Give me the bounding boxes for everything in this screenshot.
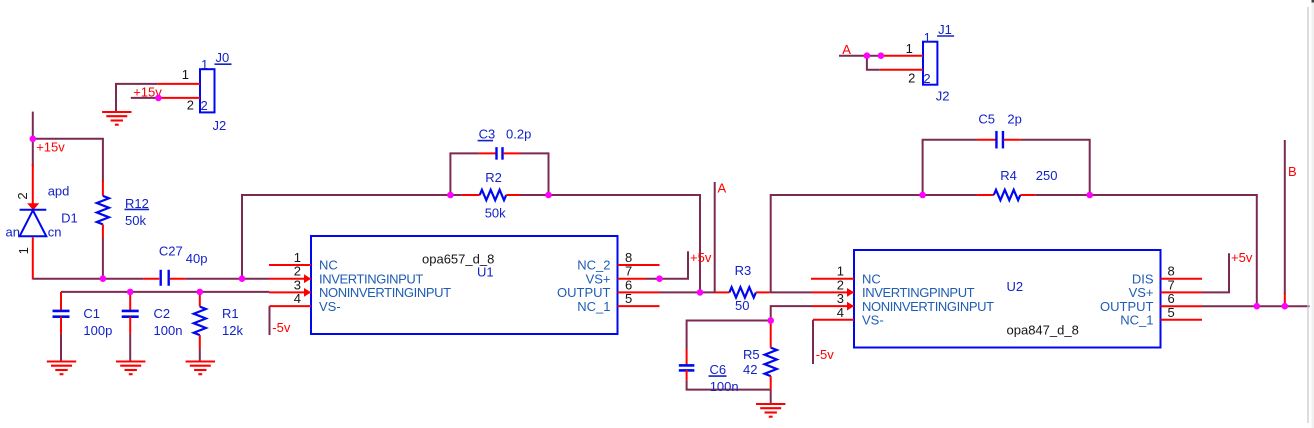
op-amp U2 pin 8 stub [1161,278,1203,280]
resistor R12 body [97,196,109,225]
svg-text:1: 1 [201,57,208,72]
op-amp U1 pin 5 stub [618,305,660,307]
connector J1 pin 1 stub [881,55,923,57]
op-amp U2 pin 4 stub [813,319,854,321]
svg-text:NC_1: NC_1 [1120,313,1153,328]
wire C6 bottom [687,380,771,389]
connector J0 pin 1 stub [158,83,200,85]
junction at J1 pin1 stub [878,52,885,59]
connector J0 refdes underline [215,63,232,65]
svg-text:1: 1 [906,41,913,56]
svg-text:J1: J1 [938,22,952,37]
svg-text:50k: 50k [125,213,146,228]
svg-text:C1: C1 [83,306,100,321]
svg-text:0.2p: 0.2p [506,127,531,142]
svg-text:an: an [6,224,20,239]
wire R2 left [450,194,461,196]
capacitor C2 bottom stub [129,317,131,334]
op-amp U1 body [311,236,618,334]
svg-text:2: 2 [187,98,194,113]
svg-text:1: 1 [16,247,31,254]
wire feedback to U1 output [549,195,701,292]
junction U1 pin7 +5v [656,275,663,282]
op-amp U2 pin 3 arrow [847,302,854,311]
svg-text:A: A [842,42,851,57]
capacitor C27 body [161,270,169,286]
wire U2 feedback left leg [771,195,923,292]
capacitor C6 bottom stub [686,370,688,380]
capacitor C6 refdes underline [709,375,727,377]
wire +5v to U2 pin7 [1202,253,1229,292]
wire R3 to U2 pin2 [770,291,812,293]
wire C2 to ground [129,334,131,362]
svg-text:opa847_d_8: opa847_d_8 [1007,322,1079,337]
wire R2 right [520,194,549,196]
wire noninverting line [61,291,269,293]
resistor R12 refdes underline [125,208,150,210]
wire R4 right [1036,194,1090,196]
svg-text:100n: 100n [710,379,739,394]
op-amp U1 pin 3 stub [269,291,311,293]
svg-text:50k: 50k [485,206,506,221]
wire +15v vertical stub [32,112,34,167]
wire C5 loop right leg [1021,140,1090,195]
wire U2 output [1202,305,1310,307]
capacitor C1 top stub [60,292,62,311]
svg-text:1: 1 [924,30,931,45]
wire U2 pin3 branch [771,306,812,320]
capacitor C3 left stub [479,152,496,154]
svg-text:2p: 2p [1007,112,1021,127]
svg-text:R3: R3 [735,263,752,278]
svg-text:U2: U2 [1007,279,1024,294]
svg-text:D1: D1 [61,211,78,226]
ground at C2 [116,362,145,375]
op-amp U2 pin 1 stub [811,278,854,280]
svg-text:R4: R4 [1000,168,1017,183]
svg-text:A: A [718,181,727,196]
svg-text:-5v: -5v [816,347,835,362]
wire +5v to U1 pin7 [646,251,688,278]
capacitor C3 refdes underline [478,140,493,142]
junction C3 left leg [447,192,454,199]
capacitor C3 right stub [503,152,520,154]
svg-text:+5v: +5v [1231,250,1253,265]
resistor R4 body [994,190,1021,200]
wire node A vertical [714,182,716,292]
svg-text:42: 42 [743,362,757,377]
window border grey line [1307,7,1309,423]
junction C2 top [127,289,134,296]
photodiode D1 pin 1 stub (bottom) [32,237,34,279]
op-amp U1 pin 2 stub [269,278,311,280]
photodiode D1 cathode bar [20,209,47,211]
resistor R5 top stub [770,321,772,348]
wire J1 pin2 branch [867,56,880,70]
op-amp U2 body [854,250,1161,348]
junction on J0 pin2 wire [155,95,162,102]
photodiode D1 triangle [20,210,47,236]
wire R1 to ground [199,349,201,362]
capacitor C27 right stub [170,278,186,280]
junction C3 right leg [545,192,552,199]
svg-text:+5v: +5v [690,250,712,265]
wire C3 loop left leg [450,153,478,195]
svg-text:apd: apd [48,183,70,198]
junction +15v node [30,136,37,143]
junction A branch [864,52,871,59]
op-amp U1 pin 8 stub [618,264,660,266]
svg-text:1: 1 [182,67,189,82]
wire +15v stub at J0 pin2 [131,97,159,99]
svg-text:R2: R2 [485,170,502,185]
op-amp U1 pin 3 arrow [304,288,311,297]
capacitor C3 body [497,147,503,160]
svg-text:U1: U1 [477,265,494,280]
op-amp U2 pin 2 arrow [847,288,854,297]
wire node to C6 top [687,321,771,350]
ground at R1 [186,362,215,375]
ground at J0 [102,112,131,125]
svg-text:NC_1: NC_1 [577,299,610,314]
capacitor C5 left stub [977,139,996,141]
resistor R2 right stub [506,194,520,196]
wire feedback to U2 output [1090,195,1257,306]
op-amp U1 pin 4 stub [270,305,312,307]
capacitor C27 left stub [143,278,159,280]
wire J0 pin1 to ground [116,84,158,112]
resistor R1 body [194,307,206,336]
op-amp U2 pin 5 stub [1161,319,1203,321]
svg-text:J2: J2 [936,89,950,104]
connector J1 pin 2 stub [880,69,923,71]
svg-text:2: 2 [15,192,30,199]
wire -5v at U1 pin4 [269,306,271,335]
wire feedback left leg to bus [242,195,450,279]
svg-text:C2: C2 [154,306,171,321]
wire node B vertical [1284,140,1286,294]
wire R4 left [923,194,978,196]
junction R1 top [197,289,204,296]
resistor R12 bottom stub [102,224,104,237]
wire C5 loop left leg [923,140,978,195]
svg-text:J0: J0 [216,50,230,65]
svg-text:+15v: +15v [36,139,65,154]
svg-text:50: 50 [735,298,749,313]
svg-text:VS-: VS- [862,313,884,328]
resistor R3 left stub [715,291,730,293]
wire node A to J1 [839,55,881,57]
connector J1 body [923,42,937,85]
capacitor C1 bottom stub [60,317,62,334]
wire node B red stub [1284,293,1286,306]
op-amp U2 pin 7 stub [1161,291,1203,293]
svg-text:R1: R1 [222,306,239,321]
wire U1 output [660,291,716,293]
resistor R1 bottom stub [199,335,201,348]
capacitor C6 top stub [686,349,688,365]
svg-text:250: 250 [1036,168,1058,183]
wire R12 bottom to bus [102,238,104,279]
ground at R5 [756,404,785,417]
junction U2 feedback-output [1254,303,1261,310]
op-amp U1 pin 1 stub [269,264,311,266]
svg-text:C5: C5 [978,112,995,127]
resistor R4 right stub [1020,194,1036,196]
resistor R5 bottom stub [770,376,772,390]
resistor R2 body [480,190,507,200]
svg-text:VS-: VS- [319,299,341,314]
resistor R2 left stub [462,194,480,196]
resistor R5 body [765,348,777,377]
ground at C1 [47,362,76,375]
svg-text:C27: C27 [159,244,183,259]
junction C5 right leg [1086,192,1093,199]
svg-text:12k: 12k [222,323,243,338]
capacitor C1 body [53,311,70,317]
op-amp U2 pin 6 stub [1161,305,1203,307]
resistor R4 left stub [977,194,994,196]
capacitor C5 body [996,131,1003,149]
svg-text:C3: C3 [479,127,496,142]
svg-text:-5v: -5v [272,320,291,335]
svg-text:B: B [1288,164,1297,179]
junction feedback tap on bus [239,275,246,282]
resistor R3 body [729,287,756,297]
capacitor C2 body [122,311,139,317]
photodiode D1 arrow [27,203,39,210]
connector J0 body [200,69,215,112]
wire diode to C27 [33,278,143,280]
op-amp U1 pin 6 stub [618,291,660,293]
svg-text:C6: C6 [710,362,727,377]
resistor R3 right stub [756,291,770,293]
wire C3 loop right leg [520,153,549,195]
svg-text:40p: 40p [186,251,208,266]
wire +15v to R12 top [33,139,103,182]
window corner dark tick [1312,0,1314,3]
wire C27 to U1 pin2 [186,278,269,280]
capacitor C6 body [679,365,695,370]
resistor R1 top stub [199,292,201,307]
capacitor C5 right stub [1004,139,1021,141]
junction R5 top node [767,317,774,324]
svg-text:2: 2 [201,98,208,113]
capacitor C2 top stub [129,292,131,311]
svg-text:2: 2 [923,71,930,86]
junction R12-bus [100,275,107,282]
connector J1 refdes underline [937,35,954,37]
op-amp U2 pin 3 stub [812,305,854,307]
op-amp U1 pin 7 stub [618,278,647,280]
svg-text:cn: cn [48,224,62,239]
wire R5 to ground [770,390,772,404]
svg-text:100n: 100n [154,323,183,338]
resistor R12 top stub [102,180,104,196]
wire C1 to ground [60,334,62,362]
svg-text:J2: J2 [213,118,227,133]
window edge light band [1312,2,1314,428]
junction feedback-output [697,289,704,296]
wire -5v at U2 pin4 [812,320,814,364]
op-amp U2 pin 2 stub [812,291,854,293]
op-amp U1 pin 2 arrow [304,274,311,283]
photodiode D1 pin 2 stub (top) [32,164,34,205]
junction C5 left leg [919,192,926,199]
junction node B [1282,303,1289,310]
connector J0 pin 2 stub [158,97,200,99]
svg-text:2: 2 [908,71,915,86]
svg-text:R5: R5 [743,347,760,362]
svg-text:100p: 100p [83,323,112,338]
